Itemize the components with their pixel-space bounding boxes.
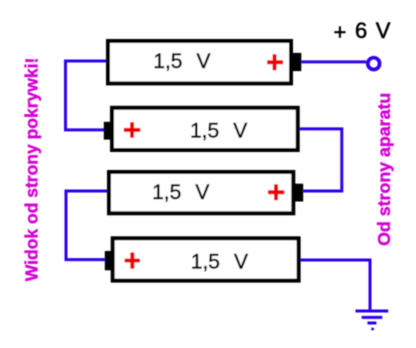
svg-text:1,5 V: 1,5 V: [191, 251, 248, 274]
svg-text:Widok od strony pokrywki!: Widok od strony pokrywki!: [21, 58, 41, 281]
svg-text:1,5 V: 1,5 V: [152, 181, 209, 204]
svg-text:1,5 V: 1,5 V: [190, 120, 247, 143]
svg-text:+ 6 V: + 6 V: [333, 18, 391, 45]
svg-text:1,5 V: 1,5 V: [153, 50, 210, 73]
svg-text:Od strony aparatu: Od strony aparatu: [374, 93, 394, 246]
